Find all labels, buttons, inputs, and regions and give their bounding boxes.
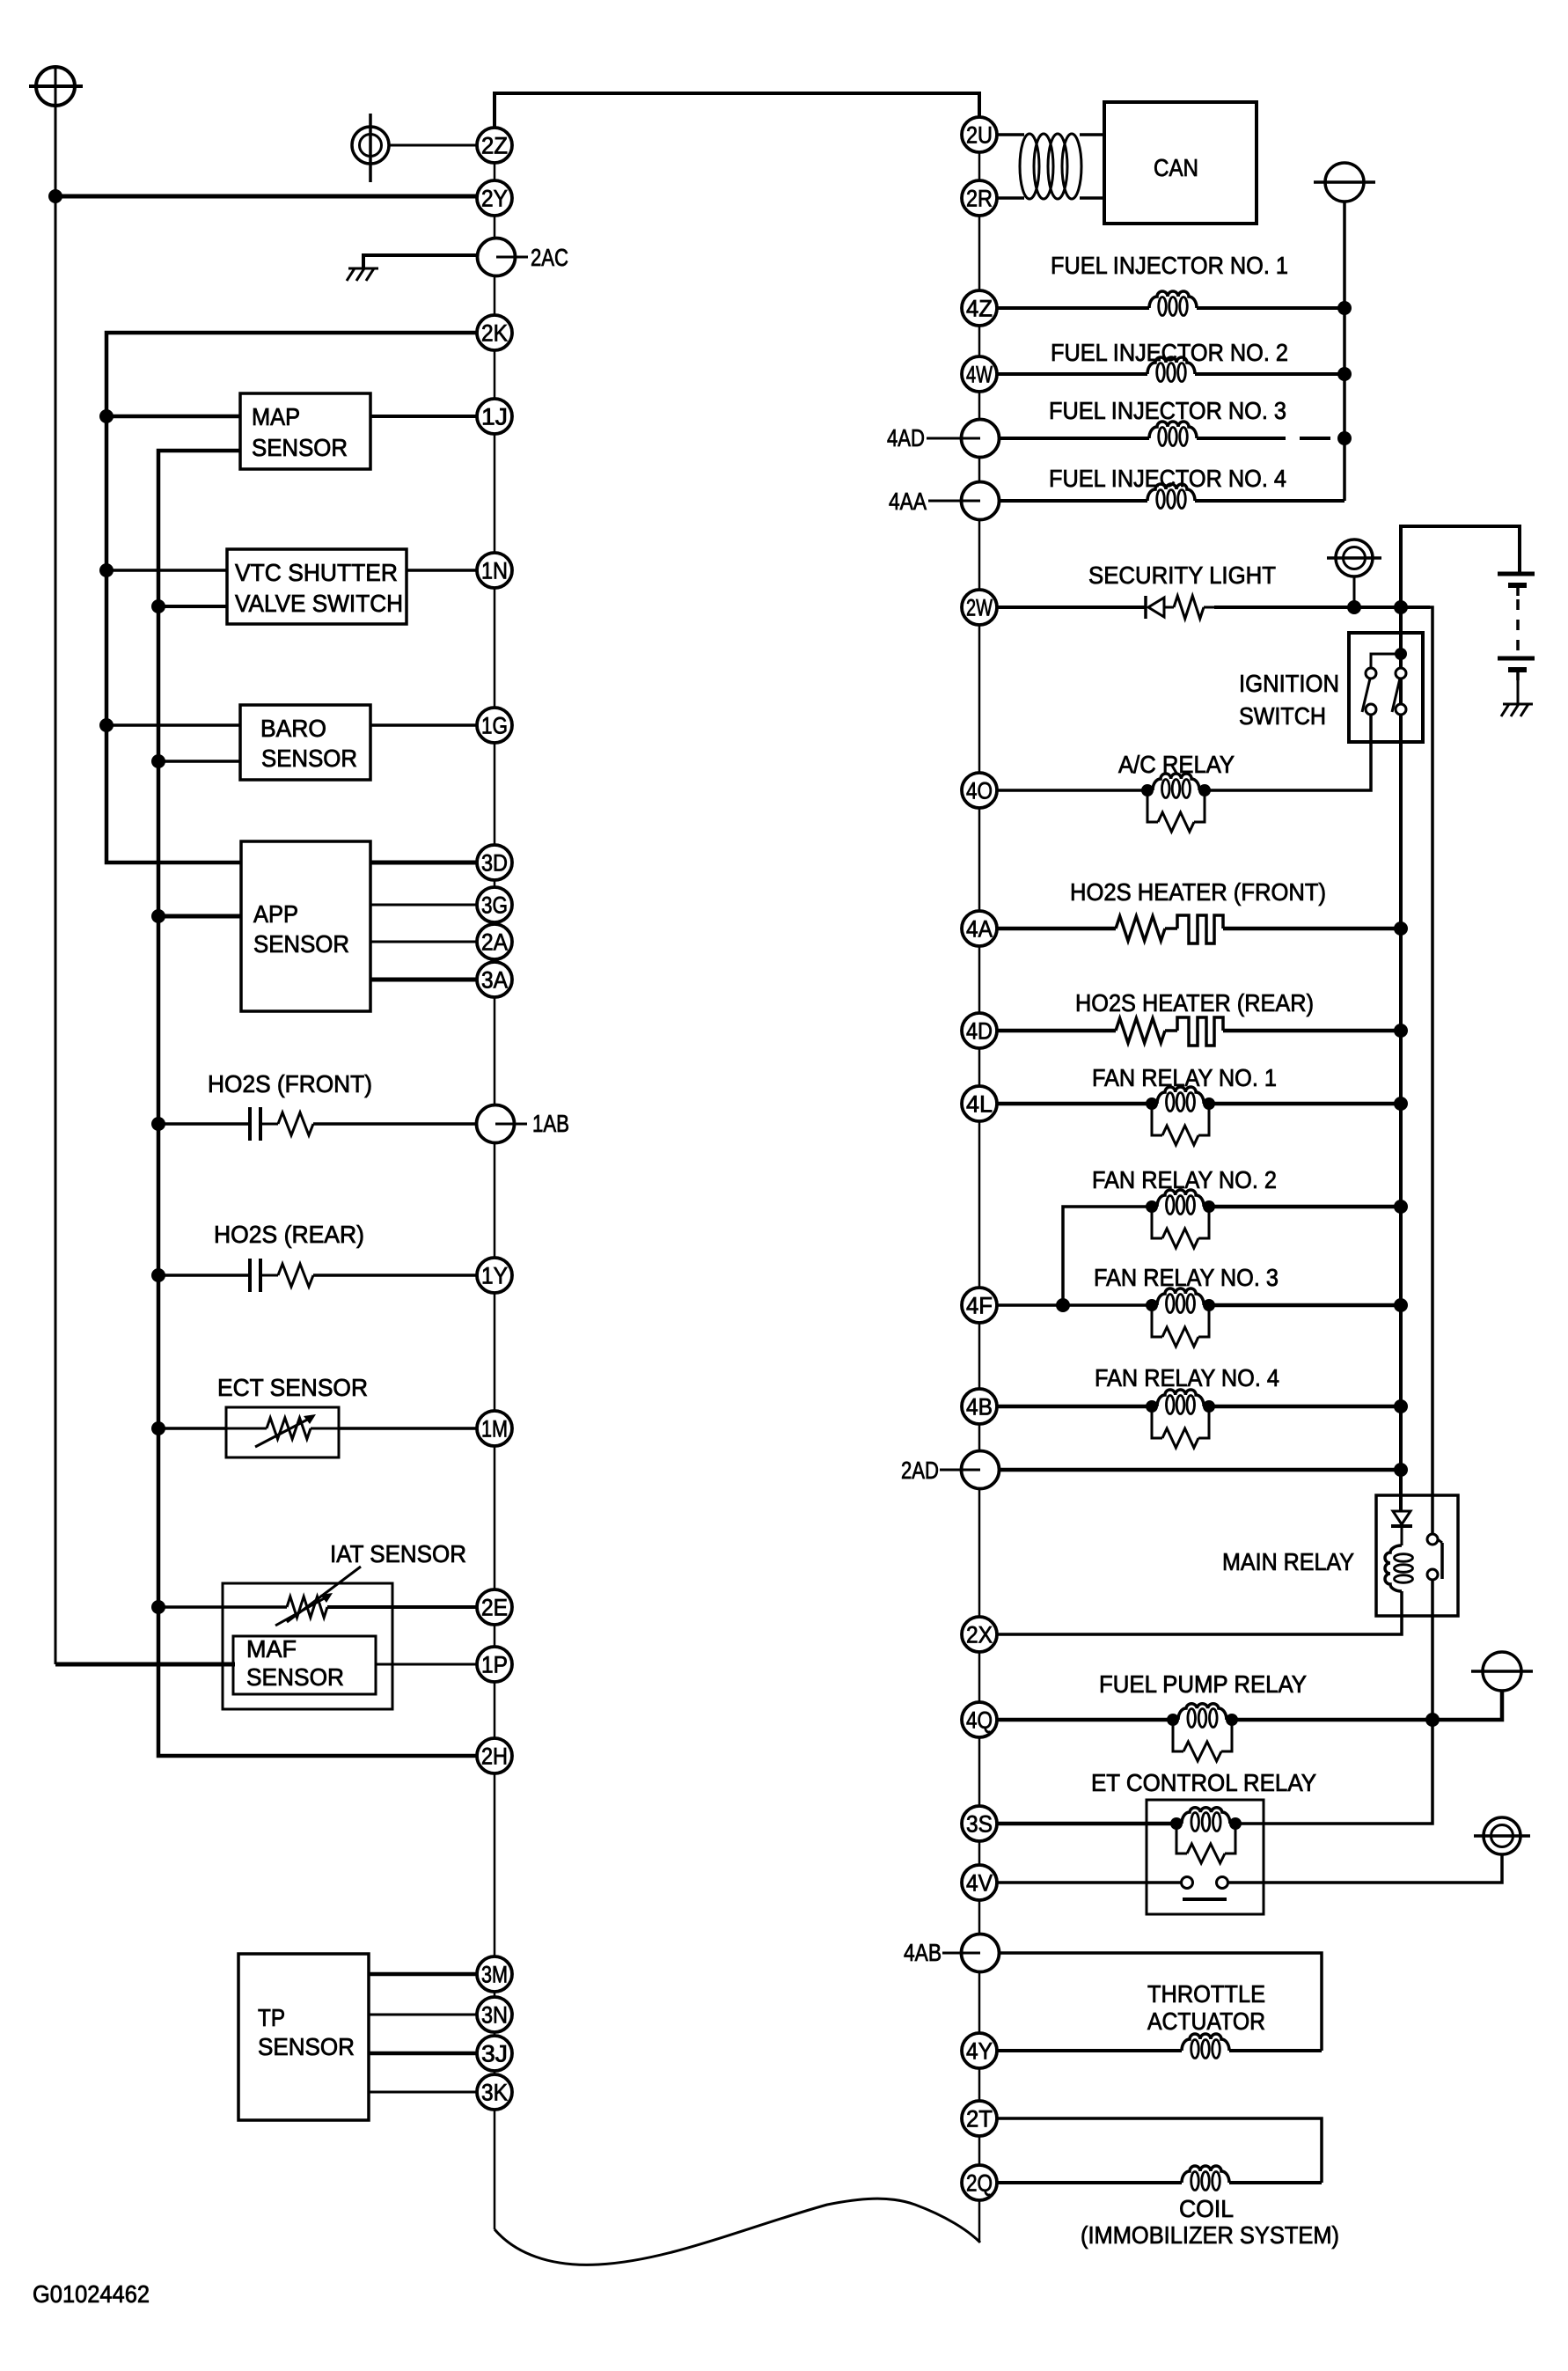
switch S2a contacts [1366, 668, 1376, 679]
wire throttle coil right [1229, 2049, 1322, 2052]
wire APP return feed [158, 914, 241, 919]
svg-text:4AD: 4AD [887, 424, 925, 451]
map sensor box U1 [240, 393, 370, 469]
svg-text:2X: 2X [966, 1622, 993, 1648]
pin 2Q [962, 2165, 997, 2200]
node J4 junction BARO supply [99, 718, 114, 732]
svg-text:MAIN RELAY: MAIN RELAY [1222, 1548, 1354, 1575]
svg-text:SECURITY LIGHT: SECURITY LIGHT [1088, 562, 1276, 589]
pin 4AA (plain) [962, 482, 1000, 520]
wire TP to pin 3M [369, 1972, 477, 1977]
svg-text:BARO: BARO [260, 715, 326, 742]
node J23 junction fan relay 3 [1394, 1298, 1408, 1312]
svg-text:FAN RELAY NO. 2: FAN RELAY NO. 2 [1092, 1166, 1277, 1193]
wire BARO to pin 1G [370, 723, 477, 727]
wire pin 4AA to injector 4 [999, 499, 1147, 503]
pin 2R [962, 180, 997, 216]
wire HO2S front left [158, 1122, 250, 1126]
switch S4 (ET relay contacts) [1182, 1877, 1193, 1889]
injector coil L2 [1147, 357, 1195, 374]
resistor R4 (heater front) [1116, 916, 1165, 941]
svg-text:VALVE SWITCH: VALVE SWITCH [235, 590, 403, 617]
svg-text:1N: 1N [481, 558, 508, 584]
wire twisted pair to CAN box top [1080, 133, 1104, 136]
svg-text:2K: 2K [481, 320, 508, 347]
svg-text:4L: 4L [966, 1091, 993, 1118]
pin 3S [962, 1806, 997, 1841]
svg-text:2H: 2H [481, 1743, 508, 1770]
pin 3N [477, 1997, 512, 2032]
svg-text:4B: 4B [966, 1394, 993, 1420]
svg-text:2E: 2E [481, 1595, 508, 1621]
svg-text:SENSOR: SENSOR [252, 434, 348, 461]
wire APP to pin 3A [370, 978, 477, 982]
node J10 junction ECT return [151, 1421, 165, 1435]
fan relay K4 [1146, 1299, 1158, 1311]
wire pin 4F to fan relay 3 [997, 1303, 1152, 1307]
node J21 junction fan relay 2 [1394, 1200, 1408, 1214]
wire top bus connecting left and right ECU columns [495, 93, 979, 128]
ect sensor box RT1 [226, 1407, 339, 1457]
wire pin 4B to fan relay 4 [997, 1405, 1152, 1409]
wire far-left bus vertical [55, 86, 57, 1664]
tp sensor box U5 [238, 1954, 369, 2120]
wire 4AD label dash [927, 437, 961, 440]
ground G1 (top-left supply symbol) [36, 67, 75, 106]
thermistor RT2 (IAT) element [287, 1597, 327, 1618]
svg-text:ECT SENSOR: ECT SENSOR [217, 1374, 368, 1401]
thermistor RT1 element [226, 1428, 267, 1430]
switch S3 (main relay contacts) [1427, 1534, 1438, 1545]
wire 4AA label dash [928, 500, 961, 503]
wire heater front to bus [1223, 927, 1401, 931]
wire sensor return bus (MAP to 2H) [158, 451, 477, 1756]
svg-text:3N: 3N [481, 2002, 508, 2029]
svg-text:SENSOR: SENSOR [246, 1663, 344, 1691]
wire pin 4W to injector 2 [997, 372, 1147, 376]
svg-text:2T: 2T [966, 2106, 993, 2132]
svg-text:2Q: 2Q [966, 2170, 993, 2197]
wire ground G5 stub [1353, 576, 1356, 609]
node J16 junction main bus at 2W [1394, 600, 1408, 614]
node J15 junction ground stub [1347, 600, 1361, 614]
svg-text:2U: 2U [966, 122, 993, 149]
capacitor C1 (HO2S front) [248, 1107, 252, 1141]
node J1 junction far-left bus to 2Y [48, 189, 62, 203]
wire switched line vertical [1403, 607, 1432, 1534]
wire 2K feed and sensor supply bus [106, 333, 477, 863]
svg-text:4Q: 4Q [966, 1707, 993, 1734]
svg-text:G01024462: G01024462 [33, 2280, 150, 2308]
diode D1 (security light) [1144, 596, 1147, 619]
ground G8 (ET relay ground) [1484, 1817, 1520, 1854]
battery BAT1 cell 1 [1498, 572, 1535, 576]
wire APP to pin 3G [370, 904, 477, 907]
svg-text:FAN RELAY NO. 4: FAN RELAY NO. 4 [1095, 1364, 1279, 1391]
wire MAP to pin 1J [370, 415, 477, 418]
wire 2U to twisted pair [996, 133, 1024, 136]
pin 4W [962, 356, 997, 392]
fuel pump relay K7 [1167, 1714, 1179, 1726]
svg-text:2W: 2W [966, 595, 993, 621]
wire left ECU bus (vertical) [494, 128, 496, 2229]
svg-text:4AB: 4AB [904, 1939, 942, 1966]
ground G6 (battery ground) [1503, 703, 1533, 706]
wire fan relay 2 feed [1063, 1207, 1152, 1305]
wire HO2S rear to pin 1Y [313, 1274, 477, 1277]
pin 2W [962, 590, 997, 625]
svg-text:FUEL INJECTOR NO. 3: FUEL INJECTOR NO. 3 [1049, 397, 1286, 424]
node J17 junction ignition feed [1395, 648, 1407, 660]
wire pin 4L to fan relay 1 [997, 1102, 1152, 1106]
wire 4AB label dash [942, 1952, 961, 1955]
pin 1N [477, 553, 512, 588]
wire fuel pump relay to ground [1232, 1691, 1502, 1720]
wire ET contacts to ground [1228, 1855, 1502, 1883]
wire MAP sensor supply [106, 415, 240, 419]
wire MAF to pin 1P [376, 1663, 478, 1666]
svg-text:4Z: 4Z [966, 296, 993, 322]
wire 2Y feed (far-left bus to pin 2Y) [55, 195, 477, 199]
wire battery to ground [1517, 680, 1520, 704]
node J9 junction HO2S rear return [151, 1268, 165, 1282]
node J22 junction fan relay 2 feed [1056, 1298, 1070, 1312]
wire TP to pin 3J [369, 2052, 477, 2056]
svg-text:SENSOR: SENSOR [253, 930, 349, 958]
svg-text:4A: 4A [966, 916, 993, 943]
pin 3M [477, 1956, 512, 1992]
wire APP to pin 3D [370, 861, 477, 865]
wire HO2S rear left [158, 1274, 250, 1277]
vtc shutter valve switch box S1 [227, 549, 407, 624]
et relay coil K8 [1170, 1817, 1183, 1830]
node J24 junction fan relay 4 [1394, 1399, 1408, 1413]
wire pin 4Q to fuel pump relay [998, 1718, 1173, 1722]
node J13 junction injector 2 [1337, 367, 1352, 381]
svg-text:4Y: 4Y [966, 2038, 993, 2065]
wire pin 4V to ET contacts [998, 1881, 1182, 1884]
node J20 junction fan relay 1 [1394, 1097, 1408, 1111]
wire IAT pointer [287, 1567, 361, 1622]
pin 1G [477, 708, 512, 743]
wire fan relay 2 to bus [1209, 1205, 1401, 1209]
pin 4Z [962, 290, 997, 326]
main relay coil L5 [1385, 1545, 1402, 1591]
svg-text:(IMMOBILIZER SYSTEM): (IMMOBILIZER SYSTEM) [1081, 2221, 1339, 2249]
pin 4AD (plain) [962, 420, 1000, 458]
wire pin 4O to A/C relay [997, 789, 1147, 792]
resistor R1 (HO2S front) [260, 1123, 278, 1126]
svg-text:SWITCH: SWITCH [1239, 702, 1326, 730]
svg-text:1G: 1G [481, 713, 508, 739]
wire pin 2AD to bus [999, 1468, 1401, 1472]
pin 2Z [477, 128, 512, 163]
main relay box K6 [1376, 1495, 1458, 1616]
wire ECT left [158, 1427, 226, 1430]
svg-text:HO2S (FRONT): HO2S (FRONT) [208, 1070, 372, 1097]
wire ECT to pin 1M [339, 1427, 478, 1430]
wire far-left bus to MAF sensor [55, 1663, 235, 1667]
resistor R2 (HO2S rear) [260, 1274, 278, 1277]
wire ignition S2b output [1399, 715, 1403, 929]
pin 2K [477, 315, 512, 350]
immobilizer coil L7 [1182, 2166, 1229, 2183]
ground G5 (security light ground) [1336, 540, 1373, 576]
capacitor C2 (HO2S rear) [248, 1259, 252, 1292]
svg-text:3A: 3A [481, 967, 508, 994]
svg-text:TP: TP [258, 2004, 285, 2031]
wire fan relay 3 to bus [1209, 1303, 1401, 1308]
pin 2T [962, 2101, 997, 2136]
svg-text:2A: 2A [481, 929, 508, 956]
svg-text:SENSOR: SENSOR [258, 2033, 355, 2060]
wire ignition pole jumper [1371, 654, 1401, 668]
wire heater rear to bus [1223, 1029, 1401, 1033]
pin 1J [477, 399, 512, 434]
baro sensor box U2 [240, 705, 370, 780]
pin 2AD (plain) [962, 1451, 1000, 1489]
ground G3 (2Z shield ground) [352, 127, 389, 164]
node J11 junction IAT return [151, 1600, 165, 1614]
ground G4 (injector supply symbol) [1325, 163, 1364, 202]
svg-text:4D: 4D [966, 1018, 993, 1045]
wire IAT left [158, 1605, 287, 1609]
node J8 junction HO2S front return [151, 1117, 165, 1131]
wire VTC supply [106, 569, 227, 572]
wire pin 4D to heater rear [997, 1029, 1116, 1033]
svg-text:MAP: MAP [252, 403, 300, 430]
pin 2AC (plain) [478, 239, 516, 276]
wire HO2S front to pin 1AB [313, 1122, 476, 1126]
svg-text:2R: 2R [966, 186, 993, 212]
pin 3D [477, 845, 512, 880]
pin 1P [477, 1647, 512, 1682]
heater element E2 (rear) [1165, 1029, 1177, 1032]
wire twisted pair to CAN box bottom [1080, 196, 1104, 200]
pin 4V [962, 1865, 997, 1900]
svg-text:3S: 3S [966, 1811, 993, 1838]
node J7 junction APP return [151, 909, 165, 923]
ground G2 (2AC chassis ground) [348, 268, 378, 270]
svg-text:FUEL PUMP RELAY: FUEL PUMP RELAY [1099, 1670, 1307, 1698]
throttle actuator coil L6 [1182, 2034, 1229, 2051]
wire security light to bus [1214, 606, 1430, 609]
wire torn-page squiggle [495, 2198, 980, 2265]
svg-text:1Y: 1Y [481, 1263, 508, 1289]
pin 2A [477, 924, 512, 959]
wire pin 4A to heater front [997, 927, 1116, 931]
wire pin 4AD to injector 3 [999, 437, 1149, 440]
wire main power bus vertical [1399, 607, 1403, 1512]
node J5 junction VTC return [151, 599, 165, 613]
wire pin 2W to diode [997, 606, 1146, 609]
wire TP to pin 3K [369, 2091, 477, 2094]
pin 4AB (plain) [962, 1934, 1000, 1972]
injector coil L1 [1149, 291, 1197, 308]
node J25 junction 2AD [1394, 1463, 1408, 1477]
wire IAT to pin 2E [327, 1605, 478, 1609]
ground G7 (fuel pump relay ground) [1483, 1652, 1521, 1691]
svg-text:MAF: MAF [246, 1635, 297, 1663]
svg-text:2Y: 2Y [481, 186, 508, 212]
pin 2U [962, 117, 997, 152]
pin 2Y [477, 180, 512, 216]
wire injector common vertical [1343, 202, 1346, 501]
wire 2Z to shield ground [389, 144, 477, 147]
svg-text:ET CONTROL RELAY: ET CONTROL RELAY [1091, 1769, 1316, 1796]
fan relay K2 [1146, 1097, 1158, 1110]
resistor R3 (security light) [1164, 606, 1174, 609]
node J6 junction BARO return [151, 754, 165, 768]
svg-text:THROTTLE: THROTTLE [1147, 1980, 1265, 2008]
svg-text:IGNITION: IGNITION [1239, 670, 1339, 697]
wire fan relay 4 to bus [1209, 1405, 1401, 1409]
wire diode to coil [1401, 1526, 1403, 1545]
wire pin 4AB to throttle actuator [999, 1953, 1322, 2051]
pin 4D [962, 1013, 997, 1048]
wire main relay switch output [1431, 1580, 1434, 1720]
pin 4Y [962, 2033, 997, 2068]
pin 4A [962, 911, 997, 946]
wire 2AD label dash [940, 1469, 961, 1472]
pin 4B [962, 1389, 997, 1424]
svg-text:1J: 1J [481, 404, 508, 430]
wire battery feed from bus [1401, 526, 1520, 607]
svg-text:2AC: 2AC [531, 244, 568, 271]
pin 3J [477, 2036, 512, 2071]
heater element E1 (front) [1165, 927, 1177, 930]
wire APP to pin 2A [370, 941, 477, 943]
svg-text:2AD: 2AD [901, 1457, 939, 1484]
wire bus 4A to 2AD segment [1399, 929, 1403, 1471]
wire pin 4Y to throttle coil [997, 2049, 1182, 2052]
svg-text:3G: 3G [481, 892, 508, 919]
svg-text:ACTUATOR: ACTUATOR [1147, 2008, 1265, 2035]
svg-text:4F: 4F [966, 1293, 993, 1319]
iat outer box [223, 1583, 392, 1709]
wire injector 3 to common (broken) [1197, 437, 1286, 440]
svg-text:2Z: 2Z [481, 133, 508, 159]
svg-text:APP: APP [253, 900, 298, 928]
wire injector 4 to common [1195, 499, 1345, 503]
app sensor box U3 [241, 841, 370, 1011]
svg-text:1P: 1P [481, 1652, 508, 1678]
svg-text:3K: 3K [481, 2080, 508, 2106]
pin 2X [962, 1617, 997, 1652]
pin 2H [477, 1738, 512, 1773]
diode D2 (main relay) [1393, 1511, 1410, 1524]
node J26 junction switched line at 4Q [1425, 1713, 1440, 1727]
svg-text:3M: 3M [481, 1962, 508, 1988]
svg-text:HO2S HEATER (FRONT): HO2S HEATER (FRONT) [1070, 878, 1326, 906]
svg-text:FUEL INJECTOR NO. 2: FUEL INJECTOR NO. 2 [1051, 339, 1288, 366]
pin 4Q [962, 1702, 997, 1737]
wire VTC to pin 1N [407, 569, 477, 572]
maf sensor box U4 [233, 1636, 376, 1694]
wire pin 2T to immobilizer [997, 2118, 1322, 2183]
wire right ECU bus (vertical) [978, 118, 981, 2243]
wire 2R to twisted pair [996, 196, 1024, 200]
node J12 junction injector 1 [1337, 301, 1352, 315]
svg-text:1M: 1M [481, 1416, 508, 1442]
svg-text:CAN: CAN [1154, 154, 1198, 181]
node J19 junction heater rear [1394, 1024, 1408, 1038]
pin 1AB (plain) [477, 1105, 515, 1143]
pin 1M [477, 1411, 512, 1446]
wire BARO supply [106, 723, 240, 727]
svg-text:SENSOR: SENSOR [261, 745, 357, 772]
wire pin 4Z to injector 1 [997, 306, 1149, 310]
svg-text:FAN RELAY NO. 3: FAN RELAY NO. 3 [1094, 1264, 1279, 1291]
injector coil L4 [1147, 484, 1195, 501]
node J14 junction injector 3 [1337, 431, 1352, 445]
node J3 junction VTC supply [99, 563, 114, 577]
pin 3K [477, 2074, 512, 2110]
pin 4F [962, 1288, 997, 1323]
wire battery internal (dashed) [1516, 599, 1520, 655]
wire BARO return [158, 760, 240, 763]
wire coil to 2X [997, 1591, 1402, 1634]
pin 3G [477, 887, 512, 922]
svg-text:FUEL INJECTOR NO. 1: FUEL INJECTOR NO. 1 [1051, 252, 1288, 279]
wire TP to pin 3N [369, 2014, 477, 2016]
node J2 junction MAP supply [99, 409, 114, 423]
node J18 junction heater front [1394, 921, 1408, 936]
wire fan relay 1 to bus [1209, 1102, 1401, 1106]
wire 2AC to chassis ground [363, 255, 477, 268]
wire pin 2Q to immobilizer coil [997, 2181, 1182, 2184]
pin 3A [477, 962, 512, 997]
fan relay K5 [1146, 1400, 1158, 1413]
svg-text:4AA: 4AA [889, 488, 927, 515]
wire VTC return [158, 605, 227, 608]
wire immobilizer coil right [1229, 2181, 1322, 2184]
injector coil L3 [1149, 422, 1197, 438]
ignition switch box S2 [1349, 633, 1423, 742]
twisted pair (CAN bus) [1020, 134, 1039, 199]
battery BAT1 cell 2 [1498, 657, 1535, 661]
svg-text:3J: 3J [481, 2041, 508, 2067]
svg-text:4V: 4V [966, 1870, 993, 1897]
svg-text:4W: 4W [966, 362, 993, 388]
svg-text:VTC SHUTTER: VTC SHUTTER [235, 559, 398, 586]
svg-text:HO2S HEATER (REAR): HO2S HEATER (REAR) [1075, 989, 1314, 1017]
can module box [1104, 102, 1257, 224]
svg-text:HO2S (REAR): HO2S (REAR) [214, 1221, 364, 1248]
et control relay box K8 [1147, 1800, 1264, 1914]
svg-text:IAT SENSOR: IAT SENSOR [330, 1540, 466, 1567]
pin 1Y [477, 1258, 512, 1293]
pin 4O [962, 773, 997, 808]
svg-text:1AB: 1AB [532, 1110, 569, 1137]
pin 2E [477, 1589, 512, 1625]
pin 4L [962, 1086, 997, 1121]
a/c relay K1 [1141, 784, 1154, 796]
wire injector 2 to common [1195, 372, 1345, 376]
wire switched line to ET relay [1235, 1720, 1432, 1824]
svg-text:COIL: COIL [1179, 2195, 1234, 2222]
wire ignition S2a output [1205, 715, 1371, 790]
fan relay K3 [1146, 1200, 1158, 1213]
svg-text:4O: 4O [966, 778, 993, 804]
wire pin 3S to ET relay [998, 1822, 1176, 1826]
wire injector 1 to common [1197, 306, 1345, 310]
switch S2b contacts [1396, 668, 1406, 679]
resistor R5 (heater rear) [1116, 1018, 1165, 1043]
svg-text:3D: 3D [481, 850, 508, 877]
